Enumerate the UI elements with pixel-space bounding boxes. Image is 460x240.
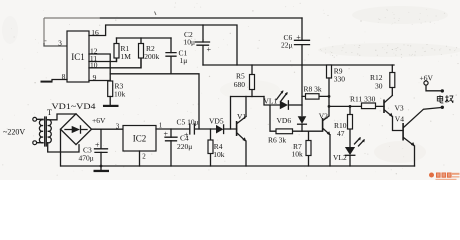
resistor R6 xyxy=(276,129,293,134)
node label 电极 xyxy=(437,95,453,103)
capacitor C5 xyxy=(190,124,195,134)
svg-text:VD5: VD5 xyxy=(209,117,224,126)
wire C6 line down through rail to VD6 xyxy=(301,65,303,116)
svg-text:330: 330 xyxy=(334,74,346,83)
+6V output terminal xyxy=(424,81,428,85)
wire VD5 bypass vertical xyxy=(230,97,232,130)
diode VD5 xyxy=(216,125,223,134)
svg-text:9: 9 xyxy=(93,73,97,82)
svg-text:+: + xyxy=(164,130,169,139)
resistor R2 xyxy=(140,38,142,68)
svg-text:~220V: ~220V xyxy=(3,128,25,137)
wire secondary top to bridge xyxy=(48,114,76,120)
svg-text:+6V: +6V xyxy=(92,116,106,125)
ground at pin 8 xyxy=(41,81,53,83)
svg-text:1M: 1M xyxy=(121,52,132,61)
svg-text:10k: 10k xyxy=(213,150,225,159)
svg-text:10k: 10k xyxy=(292,150,304,159)
wire V1 collector group xyxy=(231,96,264,98)
svg-text:3: 3 xyxy=(116,123,120,131)
svg-text:V1: V1 xyxy=(237,112,246,121)
wire pin 8 to ground xyxy=(52,80,67,81)
svg-text:IC1: IC1 xyxy=(71,52,85,62)
svg-text:R6 3k: R6 3k xyxy=(268,136,286,145)
node electrode lower dot xyxy=(441,106,444,109)
svg-text:16: 16 xyxy=(91,28,99,37)
svg-text:V4: V4 xyxy=(395,115,404,124)
svg-text:R11 330: R11 330 xyxy=(350,94,376,103)
svg-text:VD6: VD6 xyxy=(277,116,292,125)
wire long return from pin12 vertical to mid rail xyxy=(110,74,199,129)
svg-text:V3: V3 xyxy=(395,103,404,112)
capacitor C1 xyxy=(170,38,172,74)
svg-text:VD1~VD4: VD1~VD4 xyxy=(52,102,96,111)
resistor R12 xyxy=(391,65,393,95)
wire bottom ground rail xyxy=(61,165,415,167)
svg-text:10μ: 10μ xyxy=(184,37,196,46)
wire R11 net xyxy=(329,105,384,107)
capacitor C4 xyxy=(170,129,172,166)
svg-text:10: 10 xyxy=(90,60,98,69)
wire pin 16 jog to second rail y25 down to lower rail xyxy=(89,25,237,65)
ground main xyxy=(100,166,102,170)
wire top rail from outer corner to C6 xyxy=(100,17,302,19)
watermark logo xyxy=(429,173,460,181)
resistor R1 xyxy=(116,38,118,62)
resistor R9 xyxy=(327,65,332,78)
svg-text:470μ: 470μ xyxy=(79,154,94,163)
wire bridge negative to rail xyxy=(60,129,62,166)
wire mid supply rail xyxy=(203,64,394,66)
svg-text:220μ: 220μ xyxy=(177,142,192,151)
wire pin 11 to R1 bottom xyxy=(89,58,117,62)
resistor R7 xyxy=(308,131,310,166)
svg-text:8: 8 xyxy=(62,72,66,81)
wire RC network top rail xyxy=(117,37,172,39)
bridge rectifier VD1~VD4 xyxy=(61,114,92,145)
svg-text:+6V: +6V xyxy=(420,74,434,83)
resistor R5 xyxy=(251,65,253,97)
svg-text:+: + xyxy=(207,45,212,54)
svg-text:3: 3 xyxy=(58,39,62,48)
wire R6/R7/V2-base net xyxy=(270,105,323,131)
wire secondary bottom hook to bridge bottom xyxy=(48,143,79,152)
svg-text:30: 30 xyxy=(375,81,383,90)
svg-text:+: + xyxy=(95,141,100,150)
diode VD6 xyxy=(298,116,307,124)
svg-text:47: 47 xyxy=(337,129,345,138)
wire VL1 anode drop xyxy=(264,97,280,106)
transistor V1 xyxy=(236,121,238,136)
wire top rail faded left portion xyxy=(44,17,100,19)
svg-text:200k: 200k xyxy=(144,52,159,61)
IC2 regulator xyxy=(123,126,156,152)
svg-text:IC2: IC2 xyxy=(133,134,147,144)
svg-text:680: 680 xyxy=(234,80,246,89)
wire IC2 output mid rail xyxy=(156,128,237,130)
capacitor C6 xyxy=(301,18,303,65)
transistor V3 xyxy=(383,100,385,114)
transformer T xyxy=(39,120,43,143)
svg-text:+: + xyxy=(296,33,301,42)
svg-text:VL1: VL1 xyxy=(264,97,278,106)
capacitor C3 xyxy=(100,129,102,166)
svg-text:R8 3k: R8 3k xyxy=(304,85,322,94)
svg-text:1μ: 1μ xyxy=(180,56,188,65)
transistor V4 xyxy=(402,123,404,141)
LED VL2 xyxy=(345,147,355,155)
node junction dots V2 collector net xyxy=(328,95,331,98)
wire IC2 pin 2 to rail xyxy=(139,151,141,166)
wire left vertical to IC1 pin 3 xyxy=(43,18,45,44)
wire pin 10 to R2 bottom xyxy=(89,58,141,68)
wire pin 12 to vertical feeding R3 xyxy=(89,54,110,81)
resistor R4 xyxy=(210,129,212,166)
svg-text:VL2: VL2 xyxy=(333,153,347,162)
wire V1 collector drop xyxy=(245,97,247,117)
resistor R10 xyxy=(349,106,351,146)
transformer T primary terminals xyxy=(33,117,37,121)
svg-text:V2: V2 xyxy=(319,112,328,121)
svg-text:10k: 10k xyxy=(114,89,126,98)
resistor R11 xyxy=(362,103,376,109)
svg-text:C5 10μ: C5 10μ xyxy=(177,118,199,127)
wire pin 9 to R3 top xyxy=(89,80,110,82)
resistor R3 xyxy=(108,81,113,97)
svg-text:1: 1 xyxy=(159,122,163,130)
capacitor C2 xyxy=(202,25,204,65)
resistor R8 xyxy=(302,95,329,97)
IC1 U1 xyxy=(67,31,89,82)
ground under R3 xyxy=(103,105,119,107)
svg-text:22μ: 22μ xyxy=(281,41,293,50)
LED VL1 xyxy=(289,104,302,106)
svg-text:2: 2 xyxy=(142,153,146,161)
wire bridge +6V to IC2 xyxy=(92,128,124,130)
transistor V2 xyxy=(322,118,324,132)
